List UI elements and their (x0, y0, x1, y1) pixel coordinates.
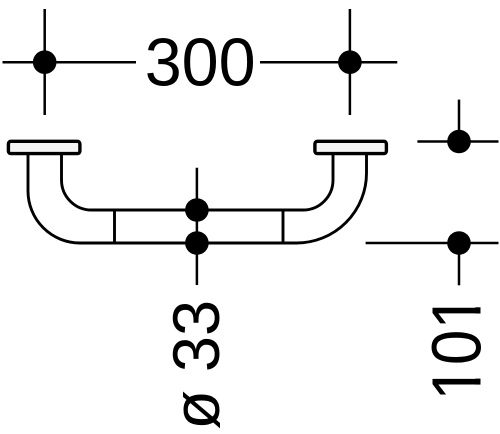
grab bar tube outer edge (28, 155, 367, 243)
crosshair B dot (338, 50, 362, 74)
left flange (8, 141, 80, 153)
tube joint line left (113, 210, 116, 243)
center dot bottom (tube bottom edge) (185, 231, 209, 255)
crosshair A vertical line (43, 9, 46, 115)
tube joint line right (282, 210, 285, 243)
svg-text:300: 300 (145, 24, 256, 100)
white covers to remove Liberation "1" base serifs (475, 295, 483, 307)
crosshair C dot (447, 130, 471, 154)
crosshair B vertical line (349, 9, 352, 115)
grab bar tube inner edge (62, 155, 334, 210)
center dimension vertical line (196, 168, 199, 285)
crosshair A dot (33, 50, 57, 74)
crosshair D vertical line (458, 243, 461, 285)
crosshair C vertical line (458, 100, 461, 142)
svg-text:101: 101 (418, 294, 496, 401)
crosshair D horizontal line (366, 242, 499, 245)
crosshair A horizontal line (3, 61, 137, 64)
center dot top (tube top edge) (185, 198, 209, 222)
crosshair B horizontal line (260, 61, 397, 64)
crosshair D dot (447, 231, 471, 255)
crosshair C horizontal line (417, 140, 498, 143)
right flange (315, 141, 387, 153)
svg-text:ø 33: ø 33 (159, 300, 233, 430)
